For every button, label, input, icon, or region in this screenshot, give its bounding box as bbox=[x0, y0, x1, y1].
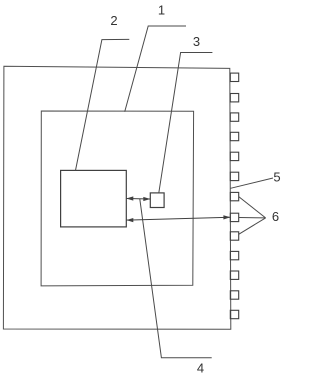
svg-text:2: 2 bbox=[110, 13, 117, 28]
svg-text:3: 3 bbox=[193, 34, 200, 49]
svg-text:1: 1 bbox=[158, 3, 165, 18]
svg-text:6: 6 bbox=[272, 209, 279, 224]
svg-text:4: 4 bbox=[197, 360, 204, 375]
svg-text:5: 5 bbox=[273, 170, 280, 185]
